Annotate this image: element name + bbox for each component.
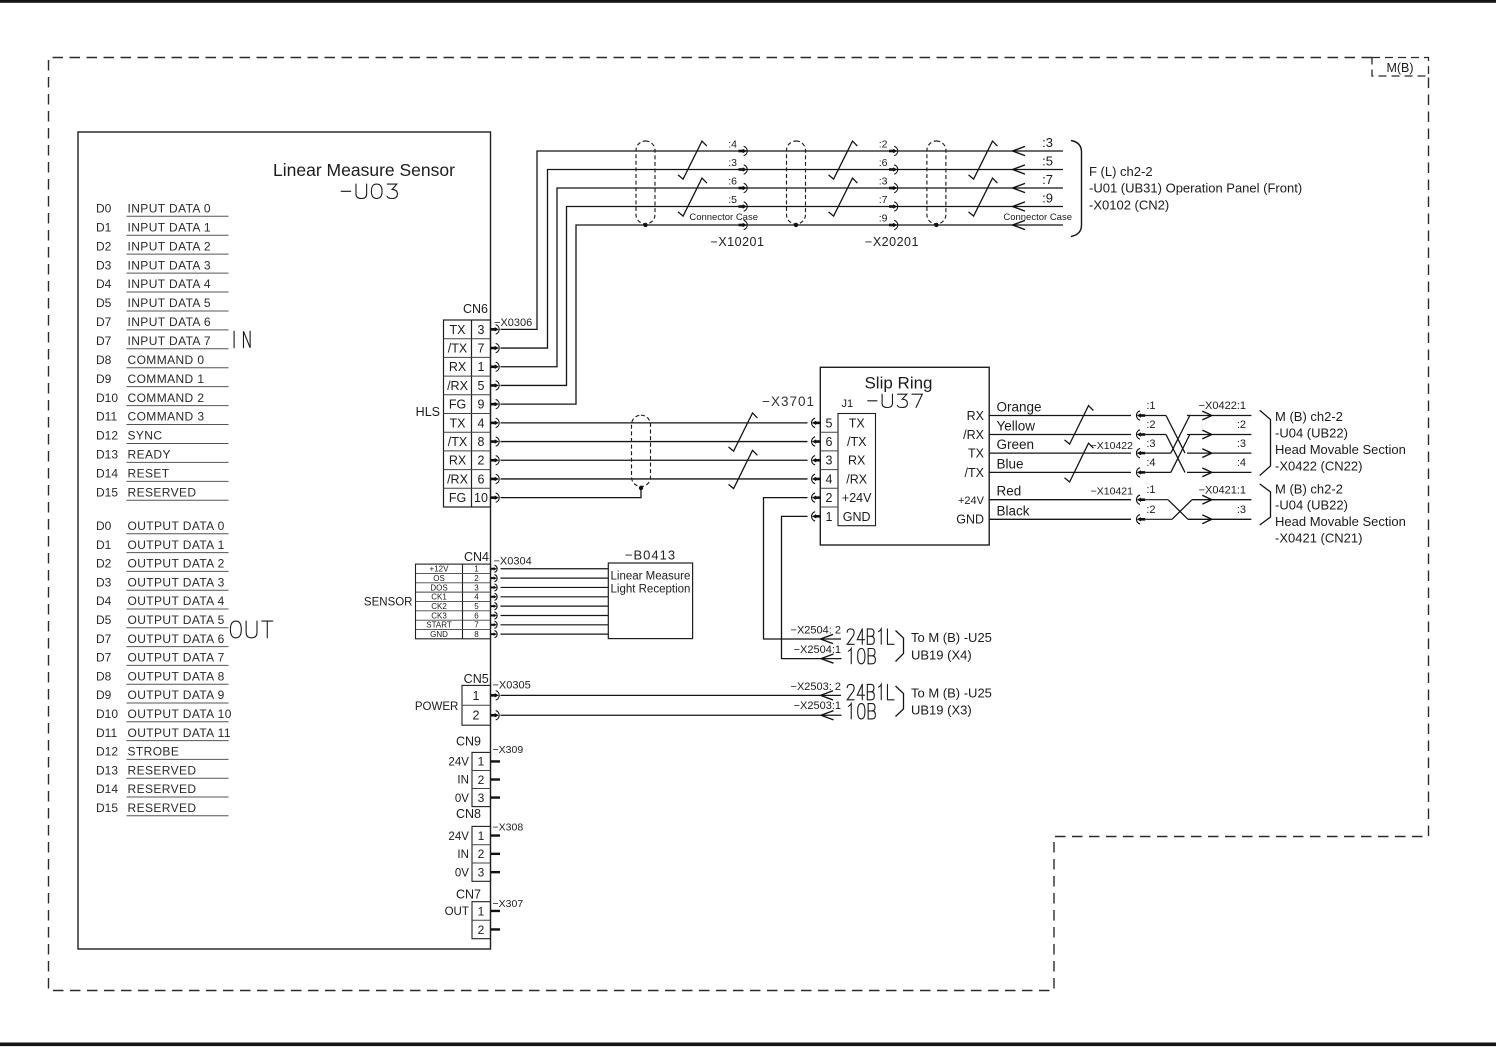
svg-text:IN: IN — [457, 849, 469, 861]
svg-text:−X2504:1: −X2504:1 — [794, 644, 841, 656]
svg-text:TX: TX — [968, 447, 985, 461]
svg-text:INPUT DATA 4: INPUT DATA 4 — [128, 277, 212, 291]
wire slip ring to -X10422/-X10421 (Yellow) — [989, 419, 1131, 435]
svg-text:1: 1 — [473, 689, 480, 703]
connector -X10422 (pins :1 :2 :3 :4) — [1091, 400, 1156, 477]
signal list IN (input data / command bits) — [96, 202, 229, 501]
svg-text:6: 6 — [478, 472, 485, 486]
svg-text:−X2504: 2: −X2504: 2 — [791, 625, 841, 637]
svg-text:D3: D3 — [96, 575, 112, 589]
svg-text:OUT: OUT — [445, 906, 469, 918]
svg-text:OUTPUT DATA 6: OUTPUT DATA 6 — [128, 632, 225, 646]
svg-text:D7: D7 — [96, 334, 112, 348]
svg-text:4: 4 — [826, 472, 833, 486]
label SENSOR — [364, 597, 413, 609]
svg-text::7: :7 — [1042, 172, 1053, 187]
connector -X0102 pins (arrows :3 :5 :7 :9, connector case) — [1003, 135, 1072, 230]
svg-text:3: 3 — [474, 583, 479, 592]
svg-text:−X0422:1: −X0422:1 — [1199, 400, 1246, 412]
svg-text:Head Movable Section: Head Movable Section — [1275, 442, 1406, 457]
svg-text:D1: D1 — [96, 220, 112, 234]
block -B0413 Linear Measure Light Reception — [608, 548, 692, 639]
svg-text:Connector Case: Connector Case — [1003, 212, 1072, 223]
wire slip ring to -X10422/-X10421 (Red) — [989, 484, 1131, 500]
wire CN4 pin 1 (+12V) to -B0413 — [501, 568, 609, 570]
svg-text:−X10201: −X10201 — [711, 235, 765, 249]
svg-text:2: 2 — [478, 923, 485, 937]
svg-text:/RX: /RX — [447, 379, 469, 393]
svg-text:D15: D15 — [96, 485, 118, 499]
wire CN4 pin 3 (DOS) to -B0413 — [501, 586, 609, 588]
connector -X20201 (pins :2 :6 :3 :7 :9) — [865, 139, 919, 250]
wire CN6 pin 7 (/TX) to -X10201/-X20201 cable — [501, 170, 1064, 349]
svg-text:−X309: −X309 — [493, 744, 524, 756]
wire CN4 pin 7 (START) to -B0413 — [501, 624, 609, 626]
svg-text:D7: D7 — [96, 651, 112, 665]
wire slip ring J1 pin 2 (+24V) to -X2504:2 — [764, 498, 842, 639]
wire CN6 pin 6 (/RX) to slip ring J1 — [501, 478, 808, 480]
svg-text:OUTPUT DATA 10: OUTPUT DATA 10 — [128, 707, 232, 721]
svg-text:D3: D3 — [96, 258, 112, 272]
svg-text:−X10421: −X10421 — [1091, 486, 1133, 498]
svg-text::6: :6 — [879, 157, 888, 169]
wire CN4 pin 8 (GND) to -B0413 — [501, 633, 609, 635]
svg-text:−X2503: 2: −X2503: 2 — [791, 681, 841, 693]
label OUT — [230, 621, 272, 638]
svg-text:1: 1 — [478, 755, 485, 769]
svg-text:1: 1 — [826, 510, 833, 524]
svg-text:OUTPUT DATA 4: OUTPUT DATA 4 — [128, 594, 225, 608]
svg-text:CK3: CK3 — [431, 611, 447, 620]
svg-text:D7: D7 — [96, 315, 112, 329]
svg-text:Light Reception: Light Reception — [611, 584, 691, 596]
svg-text:−X3701: −X3701 — [762, 394, 815, 409]
connector CN4 (-X0304) — [416, 550, 532, 639]
svg-text:−X307: −X307 — [493, 898, 524, 910]
svg-text:INPUT DATA 2: INPUT DATA 2 — [128, 239, 212, 253]
svg-text:2: 2 — [474, 574, 479, 583]
svg-text:D12: D12 — [96, 745, 118, 759]
svg-text:0V: 0V — [455, 793, 469, 805]
svg-text:D14: D14 — [96, 467, 118, 481]
svg-text:9: 9 — [478, 398, 485, 412]
svg-text:Connector Case: Connector Case — [689, 212, 758, 223]
svg-text::2: :2 — [1237, 419, 1246, 431]
svg-text:D5: D5 — [96, 296, 112, 310]
crossover wires -X10421 to -X0421 — [1145, 500, 1192, 520]
svg-text:D0: D0 — [96, 202, 112, 216]
wire CN6 pin 8 (/TX) to slip ring J1 — [501, 441, 808, 443]
connector J1 pin table (pins 5 6 3 4 2 1) — [812, 414, 876, 526]
wire CN4 pin 5 (CK2) to -B0413 — [501, 605, 609, 607]
svg-text:−B0413: −B0413 — [625, 548, 676, 563]
svg-text:CN8: CN8 — [456, 807, 481, 821]
svg-text:4: 4 — [474, 593, 479, 602]
svg-text:2: 2 — [478, 847, 485, 861]
svg-text:/TX: /TX — [965, 466, 985, 480]
svg-text:J1: J1 — [842, 398, 854, 410]
svg-text:To M (B) -U25: To M (B) -U25 — [911, 630, 992, 645]
svg-text:OS: OS — [433, 574, 445, 583]
svg-text:10: 10 — [474, 491, 488, 505]
svg-text:RX: RX — [449, 454, 467, 468]
svg-text:+24V: +24V — [958, 495, 985, 507]
svg-text:RESET: RESET — [128, 467, 170, 481]
brace and destination text: M (B) Head Movable Section -X0421 (CN21) — [1260, 481, 1406, 545]
svg-text:1: 1 — [478, 360, 485, 374]
svg-text:OUTPUT DATA 3: OUTPUT DATA 3 — [128, 575, 225, 589]
svg-text:TX: TX — [450, 323, 467, 337]
svg-text:SYNC: SYNC — [128, 429, 163, 443]
svg-text:FG: FG — [449, 491, 466, 505]
slip ring right-side pin names — [956, 409, 984, 527]
label IN — [234, 331, 250, 348]
svg-text:1: 1 — [478, 829, 485, 843]
svg-text:OUTPUT DATA 11: OUTPUT DATA 11 — [128, 726, 231, 740]
svg-text:/RX: /RX — [447, 472, 469, 486]
svg-text:OUTPUT DATA 8: OUTPUT DATA 8 — [128, 669, 225, 683]
svg-text:Yellow: Yellow — [997, 419, 1036, 434]
svg-text:M (B) ch2-2: M (B) ch2-2 — [1275, 481, 1343, 496]
svg-text::4: :4 — [1237, 457, 1246, 469]
svg-text:Blue: Blue — [997, 456, 1024, 471]
svg-text:Green: Green — [997, 437, 1035, 452]
svg-text:/TX: /TX — [448, 341, 468, 355]
svg-text::6: :6 — [728, 176, 737, 188]
svg-text::3: :3 — [1146, 438, 1155, 450]
svg-text:/RX: /RX — [963, 428, 985, 442]
svg-text:OUTPUT DATA 0: OUTPUT DATA 0 — [128, 519, 225, 533]
svg-text:CN9: CN9 — [456, 735, 481, 749]
svg-text::4: :4 — [728, 139, 737, 151]
wire CN5 pin 1 to -X2503:2 — [501, 694, 842, 696]
svg-text:1: 1 — [474, 565, 479, 574]
svg-text:-U04 (UB22): -U04 (UB22) — [1275, 498, 1348, 513]
svg-text:Head Movable Section: Head Movable Section — [1275, 514, 1406, 529]
cable shield oval (left segment) — [636, 141, 655, 227]
svg-text::1: :1 — [1146, 400, 1155, 412]
svg-text:OUTPUT DATA 7: OUTPUT DATA 7 — [128, 651, 225, 665]
svg-text:DOS: DOS — [430, 583, 447, 592]
svg-text:D10: D10 — [96, 707, 118, 721]
svg-text:GND: GND — [956, 513, 984, 527]
cable labels 24B1L / 10B and destination To M (B) -U25 UB19 (X4) — [847, 629, 992, 664]
wire CN6 pin 1 (RX) to -X10201/-X20201 cable — [501, 188, 1064, 367]
svg-text:-U04 (UB22): -U04 (UB22) — [1275, 425, 1348, 440]
svg-text:Slip Ring: Slip Ring — [864, 374, 932, 393]
svg-text:INPUT DATA 1: INPUT DATA 1 — [128, 220, 212, 234]
wire slip ring to -X10422/-X10421 (Green) — [989, 437, 1131, 453]
svg-text::1: :1 — [1146, 484, 1155, 496]
svg-text:/TX: /TX — [448, 435, 468, 449]
svg-text:CK1: CK1 — [431, 593, 447, 602]
cable shield oval (HLS cable) — [632, 415, 651, 490]
svg-text:UB19 (X3): UB19 (X3) — [911, 703, 972, 718]
svg-text:OUTPUT DATA 9: OUTPUT DATA 9 — [128, 688, 225, 702]
svg-text:−X0421:1: −X0421:1 — [1199, 485, 1246, 497]
svg-text:RX: RX — [449, 360, 467, 374]
svg-text:D1: D1 — [96, 538, 112, 552]
svg-text:8: 8 — [478, 435, 485, 449]
block -U03 Linear Measure Sensor — [78, 132, 491, 949]
svg-text:D9: D9 — [96, 372, 112, 386]
wire slip ring to -X10422/-X10421 (Orange) — [989, 400, 1131, 416]
wire slip ring to -X10422/-X10421 (Blue) — [989, 456, 1131, 472]
svg-text:RESERVED: RESERVED — [128, 801, 197, 815]
svg-text:D11: D11 — [96, 410, 117, 424]
signal list OUT (output data bits) — [96, 519, 232, 816]
svg-text:D0: D0 — [96, 519, 112, 533]
svg-text:START: START — [426, 621, 452, 630]
svg-text:GND: GND — [843, 510, 871, 524]
connector CN7 (-X307) — [445, 887, 524, 938]
svg-text:-X0422 (CN22): -X0422 (CN22) — [1275, 458, 1362, 473]
label POWER — [415, 701, 458, 713]
svg-text:5: 5 — [474, 602, 479, 611]
svg-text:COMMAND 3: COMMAND 3 — [128, 410, 205, 424]
wire CN4 pin 6 (CK3) to -B0413 — [501, 614, 609, 616]
connector CN9 (-X309) — [448, 735, 523, 807]
svg-text:7: 7 — [478, 341, 485, 355]
svg-text::3: :3 — [1237, 438, 1246, 450]
connector -X0422 (arrows, pins :1 :2 :3 :4) — [1187, 400, 1251, 477]
svg-text:F (L) ch2-2: F (L) ch2-2 — [1089, 164, 1153, 179]
svg-text:D11: D11 — [96, 726, 117, 740]
svg-text:M (B) ch2-2: M (B) ch2-2 — [1275, 409, 1343, 424]
svg-text:SENSOR: SENSOR — [364, 597, 413, 609]
svg-text:−X2503:1: −X2503:1 — [794, 700, 841, 712]
svg-text::3: :3 — [728, 157, 737, 169]
svg-text::7: :7 — [879, 194, 888, 206]
svg-text:D8: D8 — [96, 669, 112, 683]
connector -X10421 (pins :1 :2) — [1091, 484, 1156, 524]
twisted pair symbols (HLS cable) — [729, 413, 758, 489]
svg-text:+24V: +24V — [842, 491, 872, 505]
svg-text::4: :4 — [1146, 457, 1155, 469]
svg-text:5: 5 — [826, 416, 833, 430]
svg-text:M(B): M(B) — [1386, 61, 1413, 75]
svg-text::2: :2 — [879, 139, 888, 151]
svg-text:−X20201: −X20201 — [865, 235, 919, 249]
svg-text:0V: 0V — [455, 867, 469, 879]
svg-text:3: 3 — [478, 791, 485, 805]
svg-text:CN5: CN5 — [464, 672, 489, 686]
wire CN5 pin 2 to -X2503:1 — [501, 714, 842, 716]
wire CN6 pin 3 (TX) to -X10201/-X20201 cable — [501, 151, 1064, 329]
svg-text:CN6: CN6 — [463, 302, 488, 316]
svg-text:D13: D13 — [96, 763, 118, 777]
connector CN5 (-X0305) — [462, 672, 531, 725]
svg-text:To M (B) -U25: To M (B) -U25 — [911, 686, 992, 701]
svg-text:−X0305: −X0305 — [493, 680, 531, 692]
svg-text:/RX: /RX — [846, 472, 868, 486]
svg-text:INPUT DATA 7: INPUT DATA 7 — [128, 334, 212, 348]
svg-text:D12: D12 — [96, 429, 118, 443]
svg-text:5: 5 — [478, 379, 485, 393]
svg-text:HLS: HLS — [416, 405, 440, 419]
svg-text:6: 6 — [826, 435, 833, 449]
connector CN6 (-X0306) — [416, 302, 533, 507]
svg-text:D14: D14 — [96, 782, 118, 796]
svg-text:RX: RX — [848, 454, 866, 468]
svg-text:INPUT DATA 3: INPUT DATA 3 — [128, 258, 212, 272]
svg-text:Red: Red — [997, 484, 1022, 499]
svg-text::5: :5 — [1042, 154, 1053, 169]
svg-text::2: :2 — [1146, 504, 1155, 516]
wire CN4 pin 4 (CK1) to -B0413 — [501, 596, 609, 598]
cable labels 24B1L / 10B and destination To M (B) -U25 UB19 (X3) — [847, 684, 992, 719]
svg-text:RESERVED: RESERVED — [128, 782, 197, 796]
wire slip ring to -X10422/-X10421 (Black) — [989, 503, 1131, 519]
svg-text:TX: TX — [450, 416, 467, 430]
wire slip ring J1 pin 1 (GND) to -X2504:1 — [782, 516, 842, 658]
svg-text:Black: Black — [997, 503, 1030, 518]
svg-text:Linear Measure: Linear Measure — [611, 571, 691, 583]
svg-text:RESERVED: RESERVED — [128, 485, 197, 499]
svg-text:STROBE: STROBE — [128, 745, 180, 759]
block -U37 Slip Ring — [820, 367, 989, 545]
svg-text:COMMAND 1: COMMAND 1 — [128, 372, 205, 386]
svg-text:D15: D15 — [96, 801, 118, 815]
svg-text:1: 1 — [478, 904, 485, 918]
svg-text:2: 2 — [478, 454, 485, 468]
svg-text:CN7: CN7 — [456, 887, 481, 901]
connector -X0421 (arrows, pins :1 :3) — [1188, 485, 1251, 524]
wire CN6 pin 4 (TX) to slip ring J1 — [501, 422, 808, 424]
svg-text::9: :9 — [1042, 191, 1053, 206]
wire CN4 pin 2 (OS) to -B0413 — [501, 577, 609, 579]
svg-text:D8: D8 — [96, 353, 112, 367]
svg-text:D4: D4 — [96, 277, 112, 291]
crossover wires -X10422 to -X0422 — [1145, 416, 1190, 473]
svg-text:24V: 24V — [448, 831, 469, 843]
svg-text:RESERVED: RESERVED — [128, 763, 197, 777]
svg-text:D10: D10 — [96, 391, 118, 405]
cable shield oval (middle segment) — [787, 141, 806, 227]
brace and destination text: F (L) Operation Panel — [1071, 141, 1302, 237]
svg-text:POWER: POWER — [415, 701, 458, 713]
wire CN6 pin 5 (/RX) to -X10201/-X20201 cable — [501, 207, 1064, 386]
svg-text:COMMAND 0: COMMAND 0 — [128, 353, 205, 367]
svg-text:D7: D7 — [96, 632, 112, 646]
cable shield oval (right segment) — [927, 141, 946, 227]
svg-text:GND: GND — [430, 630, 448, 639]
svg-text:2: 2 — [826, 491, 833, 505]
svg-text:−X0304: −X0304 — [494, 556, 532, 568]
svg-text:INPUT DATA 6: INPUT DATA 6 — [128, 315, 212, 329]
svg-text:3: 3 — [826, 454, 833, 468]
wire CN6 pin 10 (FG) to cable shield — [501, 489, 642, 498]
svg-text:24V: 24V — [448, 757, 469, 769]
svg-text:-X0102 (CN2): -X0102 (CN2) — [1089, 198, 1169, 213]
twisted pair symbols (right group) — [969, 141, 998, 216]
connector CN8 (-X308) — [448, 807, 523, 881]
svg-text:−X10422: −X10422 — [1091, 440, 1133, 452]
svg-text:8: 8 — [474, 630, 479, 639]
twisted pair symbols (left group) — [678, 141, 707, 216]
svg-text:RX: RX — [967, 409, 985, 423]
svg-text:6: 6 — [474, 611, 479, 620]
svg-text:D2: D2 — [96, 557, 112, 571]
svg-text:TX: TX — [849, 416, 866, 430]
svg-text:2: 2 — [473, 709, 480, 723]
svg-text:COMMAND 2: COMMAND 2 — [128, 391, 205, 405]
label -X3701 (connector to J1) — [762, 394, 815, 409]
svg-text:+12V: +12V — [430, 565, 450, 574]
twisted pair symbols (slip ring output) — [1065, 406, 1094, 482]
svg-text:−X0306: −X0306 — [494, 317, 532, 329]
svg-text:-X0421 (CN21): -X0421 (CN21) — [1275, 530, 1362, 545]
svg-text:/TX: /TX — [847, 435, 867, 449]
svg-text:D4: D4 — [96, 594, 112, 608]
svg-text:OUTPUT DATA 1: OUTPUT DATA 1 — [128, 538, 225, 552]
connector -X2503 (arrows, pins :2 :1) — [791, 681, 841, 720]
wire CN6 pin 2 (RX) to slip ring J1 — [501, 459, 808, 461]
svg-text:INPUT DATA 0: INPUT DATA 0 — [128, 202, 212, 216]
svg-text::3: :3 — [1042, 135, 1053, 150]
svg-text:READY: READY — [128, 448, 171, 462]
svg-text:2: 2 — [478, 773, 485, 787]
svg-text::5: :5 — [728, 194, 737, 206]
svg-text:4: 4 — [478, 416, 485, 430]
svg-text::3: :3 — [879, 176, 888, 188]
label M(B) — [1372, 58, 1429, 77]
svg-text:-U01 (UB31) Operation Panel (F: -U01 (UB31) Operation Panel (Front) — [1089, 181, 1302, 196]
svg-text:7: 7 — [474, 621, 479, 630]
svg-text:CK2: CK2 — [431, 602, 447, 611]
svg-text:D13: D13 — [96, 448, 118, 462]
svg-text:3: 3 — [478, 865, 485, 879]
twisted pair symbols (middle group) — [829, 141, 858, 216]
svg-text:D5: D5 — [96, 613, 112, 627]
svg-text:Orange: Orange — [997, 400, 1042, 415]
svg-text:−X308: −X308 — [493, 822, 524, 834]
connector -X2504 (arrows, pins :2 :1) — [791, 625, 841, 664]
svg-text:D9: D9 — [96, 688, 112, 702]
svg-text:CN4: CN4 — [464, 550, 489, 564]
svg-text:UB19 (X4): UB19 (X4) — [911, 648, 972, 663]
svg-text:INPUT DATA 5: INPUT DATA 5 — [128, 296, 212, 310]
svg-text::2: :2 — [1146, 419, 1155, 431]
svg-text:D2: D2 — [96, 239, 112, 253]
wire CN6 pin 9 (FG) to -X10201/-X20201 cable — [501, 225, 1064, 404]
svg-text:FG: FG — [449, 398, 466, 412]
svg-text:IN: IN — [457, 775, 469, 787]
brace and destination text: M (B) Head Movable Section -X0422 (CN22) — [1260, 409, 1406, 476]
svg-text:OUTPUT DATA 5: OUTPUT DATA 5 — [128, 613, 225, 627]
connector -X10201 (pins :4 :3 :6 :5, connector case) — [689, 139, 764, 250]
svg-text::3: :3 — [1237, 504, 1246, 516]
svg-text:Linear Measure Sensor: Linear Measure Sensor — [273, 160, 455, 180]
svg-text::9: :9 — [879, 213, 888, 225]
svg-text:3: 3 — [478, 323, 485, 337]
svg-text:OUTPUT DATA 2: OUTPUT DATA 2 — [128, 557, 225, 571]
